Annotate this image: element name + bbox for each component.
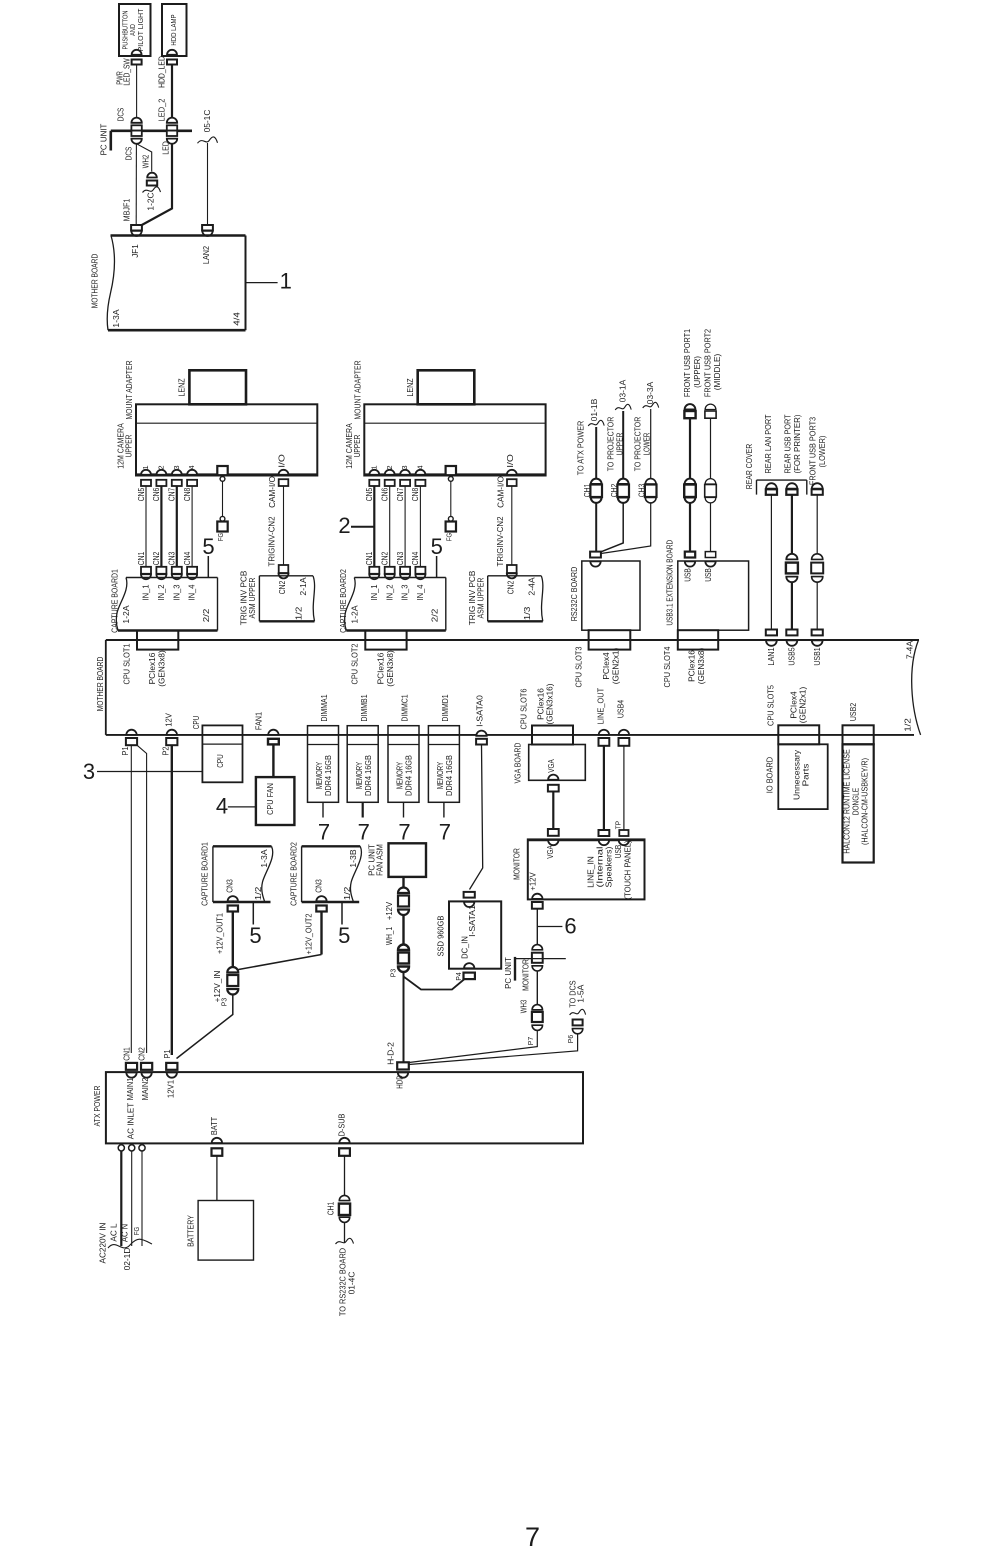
svg-text:4: 4: [189, 465, 196, 469]
svg-text:CPU SLOT3: CPU SLOT3: [574, 646, 584, 687]
svg-text:UPPER: UPPER: [615, 433, 625, 456]
svg-text:H-D-2: H-D-2: [386, 1042, 396, 1065]
svg-text:5: 5: [338, 923, 350, 948]
svg-text:USB5: USB5: [787, 647, 797, 665]
svg-text:PCIex16: PCIex16: [687, 650, 697, 682]
svg-text:7: 7: [318, 820, 330, 845]
svg-text:+12V: +12V: [528, 872, 538, 890]
svg-text:1: 1: [280, 269, 292, 294]
svg-text:+12V: +12V: [384, 902, 394, 920]
svg-text:P3: P3: [389, 969, 398, 977]
svg-text:CN4: CN4: [182, 552, 192, 566]
svg-text:D-SUB: D-SUB: [337, 1113, 347, 1136]
svg-text:IN_4: IN_4: [415, 584, 425, 600]
svg-text:FG: FG: [132, 1227, 141, 1236]
svg-text:P3: P3: [220, 998, 229, 1006]
svg-text:PCIex16: PCIex16: [147, 652, 157, 684]
svg-text:MONITOR: MONITOR: [521, 959, 531, 991]
svg-text:CN3: CN3: [225, 879, 235, 893]
svg-text:7: 7: [398, 820, 410, 845]
svg-text:2: 2: [387, 465, 394, 469]
svg-text:+12V_IN: +12V_IN: [212, 971, 222, 1003]
svg-text:(GEN3x16): (GEN3x16): [545, 683, 555, 724]
svg-text:2/2: 2/2: [201, 608, 211, 622]
svg-text:AC220V IN: AC220V IN: [98, 1223, 108, 1264]
svg-text:CPU SLOT5: CPU SLOT5: [766, 685, 776, 726]
svg-text:ATX POWER: ATX POWER: [92, 1086, 102, 1127]
svg-text:12V1: 12V1: [165, 1080, 175, 1098]
svg-text:Parts: Parts: [801, 764, 811, 787]
svg-text:2-1A: 2-1A: [298, 577, 308, 595]
svg-text:CN5: CN5: [364, 488, 374, 502]
svg-text:P6: P6: [566, 1035, 575, 1043]
svg-text:DIMMB1: DIMMB1: [359, 694, 369, 721]
svg-text:2-4A: 2-4A: [526, 577, 536, 595]
svg-text:CH2: CH2: [609, 484, 619, 498]
svg-text:SSD 960GB: SSD 960GB: [436, 915, 446, 956]
svg-text:DDR4 16GB: DDR4 16GB: [404, 755, 414, 796]
svg-text:CH1: CH1: [582, 484, 592, 498]
svg-text:WH_1: WH_1: [384, 927, 394, 945]
svg-text:CAPTURE BOARD2: CAPTURE BOARD2: [338, 569, 348, 633]
svg-text:5: 5: [249, 923, 261, 948]
svg-text:DIMMA1: DIMMA1: [319, 694, 329, 721]
svg-text:IN_2: IN_2: [156, 584, 166, 600]
svg-text:(TOUCH PANEL): (TOUCH PANEL): [623, 840, 633, 899]
svg-text:CN2: CN2: [151, 552, 161, 566]
svg-text:UPPER: UPPER: [124, 435, 134, 458]
svg-text:CN8: CN8: [182, 488, 192, 502]
svg-text:USB2: USB2: [848, 703, 858, 721]
svg-text:12V: 12V: [164, 713, 174, 727]
svg-text:MOUNT ADAPTER: MOUNT ADAPTER: [352, 360, 362, 419]
svg-text:CN1: CN1: [136, 552, 146, 566]
svg-text:1/2: 1/2: [342, 886, 352, 900]
svg-text:IN_2: IN_2: [384, 584, 394, 600]
svg-text:3: 3: [402, 465, 409, 469]
svg-text:(GEN3x8): (GEN3x8): [157, 650, 167, 687]
svg-text:PCIex4: PCIex4: [601, 652, 611, 680]
svg-text:VGA: VGA: [545, 845, 555, 859]
svg-text:6: 6: [564, 914, 576, 939]
svg-text:LAN2: LAN2: [201, 246, 211, 264]
svg-text:(HALCON-CM-USBKEY/R): (HALCON-CM-USBKEY/R): [860, 758, 870, 845]
svg-text:TRIGINV-CN2: TRIGINV-CN2: [495, 516, 505, 566]
svg-text:1-2C: 1-2C: [146, 192, 156, 210]
svg-text:I-SATA1: I-SATA1: [467, 905, 477, 937]
svg-text:CPU SLOT2: CPU SLOT2: [350, 643, 360, 684]
svg-text:CN8: CN8: [410, 488, 420, 502]
svg-text:TO ATX POWER: TO ATX POWER: [576, 421, 586, 476]
svg-text:LENZ: LENZ: [177, 378, 187, 396]
svg-text:AC INLET: AC INLET: [126, 1102, 136, 1139]
svg-text:4: 4: [418, 465, 425, 469]
svg-text:MONITOR: MONITOR: [512, 848, 522, 880]
svg-text:1/3: 1/3: [522, 606, 532, 620]
svg-text:Speakers): Speakers): [604, 846, 614, 887]
svg-text:USB3.1 EXTENSION BOARD: USB3.1 EXTENSION BOARD: [665, 540, 675, 626]
svg-text:CPU: CPU: [215, 754, 225, 768]
svg-text:CPU SLOT4: CPU SLOT4: [662, 646, 672, 687]
svg-text:CN1: CN1: [364, 552, 374, 566]
svg-text:1: 1: [143, 465, 150, 469]
svg-text:1-2A: 1-2A: [349, 605, 359, 623]
svg-text:DCS: DCS: [124, 147, 134, 161]
svg-text:REAR COVER: REAR COVER: [744, 444, 754, 490]
svg-text:I-SATA0: I-SATA0: [475, 695, 485, 727]
svg-text:LED_2: LED_2: [157, 98, 167, 121]
svg-text:(FOR PRINTER): (FOR PRINTER): [792, 414, 802, 473]
svg-text:1/2: 1/2: [253, 886, 263, 900]
svg-text:CPU SLOT6: CPU SLOT6: [519, 688, 529, 729]
svg-text:AC N: AC N: [120, 1224, 130, 1242]
svg-text:1-2A: 1-2A: [121, 605, 131, 623]
svg-text:1/2: 1/2: [903, 718, 913, 732]
svg-text:DDR4 16GB: DDR4 16GB: [363, 755, 373, 796]
svg-text:7-4A: 7-4A: [905, 641, 915, 659]
svg-text:FG: FG: [444, 533, 453, 542]
svg-text:2: 2: [338, 513, 350, 538]
svg-text:FAN ASM: FAN ASM: [375, 844, 385, 876]
svg-text:01-1B: 01-1B: [589, 398, 599, 421]
svg-text:BATTERY: BATTERY: [186, 1215, 196, 1247]
svg-text:02-1D: 02-1D: [122, 1248, 132, 1271]
svg-text:JF1: JF1: [130, 244, 140, 258]
svg-text:MAIN1: MAIN1: [125, 1077, 135, 1100]
svg-text:(GEN2x1): (GEN2x1): [798, 687, 808, 724]
svg-text:IN_1: IN_1: [369, 584, 379, 600]
svg-text:CN6: CN6: [380, 488, 390, 502]
svg-text:1-3A: 1-3A: [259, 849, 269, 867]
svg-text:ASM UPPER: ASM UPPER: [475, 578, 485, 619]
svg-text:CN3: CN3: [395, 552, 405, 566]
svg-text:HDD_LED: HDD_LED: [157, 56, 167, 88]
svg-text:BATT: BATT: [209, 1116, 219, 1135]
svg-text:CN5: CN5: [136, 488, 146, 502]
svg-text:LED: LED: [161, 141, 171, 155]
svg-text:I/O: I/O: [277, 454, 287, 468]
svg-text:UPPER: UPPER: [352, 435, 362, 458]
svg-text:P7: P7: [526, 1037, 535, 1045]
svg-text:+12V_OUT1: +12V_OUT1: [215, 913, 225, 954]
svg-text:PCIex16: PCIex16: [375, 652, 385, 684]
svg-text:1-3B: 1-3B: [348, 849, 358, 867]
svg-text:FAN1: FAN1: [254, 712, 264, 730]
svg-text:REAR LAN PORT: REAR LAN PORT: [763, 414, 773, 474]
svg-text:(GEN3x8): (GEN3x8): [385, 650, 395, 687]
svg-text:I/O: I/O: [505, 454, 515, 468]
svg-text:5: 5: [431, 534, 443, 559]
svg-text:(MIDDLE): (MIDDLE): [712, 354, 722, 391]
svg-text:CN7: CN7: [167, 488, 177, 502]
svg-text:(GEN2x1): (GEN2x1): [611, 648, 621, 685]
svg-text:CAPTURE BOARD1: CAPTURE BOARD1: [110, 569, 120, 633]
svg-text:CAM-I/O: CAM-I/O: [495, 476, 505, 508]
svg-text:CN3: CN3: [167, 552, 177, 566]
svg-text:7: 7: [525, 1522, 540, 1552]
svg-text:WH2: WH2: [141, 155, 151, 169]
svg-text:VGA: VGA: [546, 759, 556, 773]
svg-text:CN2: CN2: [380, 552, 390, 566]
svg-text:LINE_OUT: LINE_OUT: [596, 687, 606, 724]
svg-text:CAM-I/O: CAM-I/O: [267, 476, 277, 508]
svg-text:PC UNIT: PC UNIT: [99, 123, 109, 155]
svg-text:DIMMC1: DIMMC1: [400, 694, 410, 721]
svg-text:1-5A: 1-5A: [576, 984, 586, 1002]
svg-text:IN_1: IN_1: [141, 584, 151, 600]
svg-text:(UPPER): (UPPER): [692, 356, 702, 388]
svg-text:DIMMD1: DIMMD1: [440, 694, 450, 721]
svg-text:CN2: CN2: [137, 1047, 147, 1061]
svg-text:2/2: 2/2: [429, 608, 439, 622]
svg-text:HDD: HDD: [395, 1075, 405, 1089]
svg-text:CPU FAN: CPU FAN: [265, 783, 275, 815]
svg-text:CPU SLOT1: CPU SLOT1: [121, 643, 131, 684]
svg-text:+12V_OUT2: +12V_OUT2: [304, 913, 314, 954]
svg-text:CN2: CN2: [277, 581, 287, 595]
svg-text:1/2: 1/2: [294, 606, 304, 620]
svg-text:IN_4: IN_4: [187, 584, 197, 600]
svg-text:5: 5: [202, 534, 214, 559]
svg-text:PUSHBUTTON: PUSHBUTTON: [123, 11, 130, 50]
svg-text:MOTHER BOARD: MOTHER BOARD: [90, 254, 100, 309]
svg-text:CN6: CN6: [151, 488, 161, 502]
svg-text:CH1: CH1: [326, 1202, 336, 1216]
svg-text:AND: AND: [130, 24, 137, 36]
svg-text:3: 3: [174, 465, 181, 469]
svg-text:03-1A: 03-1A: [618, 379, 628, 402]
svg-text:P1: P1: [162, 1049, 172, 1058]
svg-text:7: 7: [439, 820, 451, 845]
svg-text:HDD LAMP: HDD LAMP: [171, 14, 178, 45]
svg-text:DDR4 16GB: DDR4 16GB: [323, 755, 333, 796]
svg-text:RS232C BOARD: RS232C BOARD: [569, 567, 579, 622]
svg-text:LAN1: LAN1: [766, 647, 776, 665]
svg-text:CN3: CN3: [313, 879, 323, 893]
svg-text:FG: FG: [216, 533, 225, 542]
svg-text:P2: P2: [160, 746, 170, 755]
svg-text:7: 7: [358, 820, 370, 845]
svg-text:05-1C: 05-1C: [202, 110, 212, 133]
svg-text:DCS: DCS: [116, 108, 126, 122]
svg-text:MBJF1: MBJF1: [122, 198, 132, 221]
svg-text:01-4C: 01-4C: [347, 1272, 357, 1295]
svg-text:AC L: AC L: [109, 1223, 119, 1241]
svg-text:3: 3: [83, 759, 95, 784]
svg-text:DC_IN: DC_IN: [460, 936, 470, 959]
svg-text:CN2: CN2: [505, 581, 515, 595]
svg-text:VGA BOARD: VGA BOARD: [513, 743, 523, 784]
svg-text:LED_SW: LED_SW: [122, 58, 132, 86]
svg-text:IO BOARD: IO BOARD: [765, 757, 775, 793]
svg-text:LENZ: LENZ: [405, 378, 415, 396]
svg-text:DDR4 16GB: DDR4 16GB: [444, 755, 454, 796]
svg-text:IN_3: IN_3: [400, 584, 410, 600]
svg-text:IN_3: IN_3: [171, 584, 181, 600]
svg-text:4: 4: [216, 794, 228, 819]
svg-text:PC UNIT: PC UNIT: [503, 956, 513, 988]
svg-text:ASM UPPER: ASM UPPER: [247, 578, 257, 619]
svg-text:USB4: USB4: [616, 700, 626, 718]
svg-text:USB: USB: [613, 844, 623, 858]
svg-text:CAPTURE BOARD1: CAPTURE BOARD1: [200, 842, 210, 906]
svg-text:03-3A: 03-3A: [645, 381, 655, 404]
svg-text:4/4: 4/4: [232, 312, 242, 326]
svg-text:USB: USB: [703, 568, 713, 582]
svg-text:USB: USB: [682, 568, 692, 582]
svg-text:CN1: CN1: [122, 1047, 132, 1061]
svg-text:FRONT USB PORT1: FRONT USB PORT1: [682, 329, 692, 397]
svg-text:(GEN3x8): (GEN3x8): [696, 648, 706, 685]
svg-text:TRIGINV-CN2: TRIGINV-CN2: [267, 516, 277, 566]
svg-text:MOUNT ADAPTER: MOUNT ADAPTER: [124, 360, 134, 419]
svg-text:1: 1: [371, 465, 378, 469]
svg-text:CN7: CN7: [395, 488, 405, 502]
svg-text:P4: P4: [454, 972, 463, 980]
svg-text:CPU: CPU: [191, 716, 201, 730]
svg-text:CH3: CH3: [636, 484, 646, 498]
svg-text:(LOWER): (LOWER): [817, 435, 827, 467]
svg-text:CN4: CN4: [410, 552, 420, 566]
svg-text:2: 2: [159, 465, 166, 469]
svg-text:P1: P1: [120, 746, 130, 755]
svg-text:MOTHER BOARD: MOTHER BOARD: [95, 657, 105, 712]
svg-text:1-3A: 1-3A: [111, 309, 121, 327]
svg-text:CAPTURE BOARD2: CAPTURE BOARD2: [288, 842, 298, 906]
svg-text:PILOT LIGHT: PILOT LIGHT: [138, 8, 145, 52]
svg-text:TP: TP: [614, 821, 623, 829]
svg-text:LOWER: LOWER: [642, 433, 652, 456]
svg-text:USB1: USB1: [812, 647, 822, 665]
svg-text:WH3: WH3: [519, 1000, 529, 1014]
svg-text:MAIN2: MAIN2: [140, 1077, 150, 1100]
